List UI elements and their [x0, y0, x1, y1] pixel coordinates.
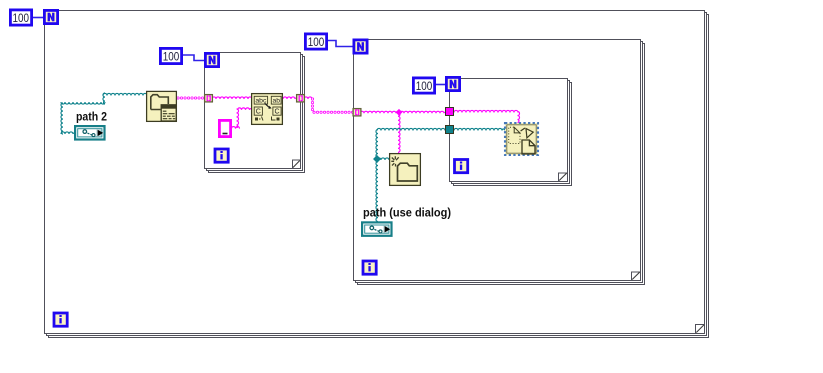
svg-text:ab: ab — [273, 98, 281, 105]
for loop 4 (innermost) — [450, 79, 572, 186]
wire: loop4 path tunnel to Move — [454, 128, 505, 130]
resize corner loop4 — [559, 173, 567, 180]
N terminal loop1 — [44, 10, 57, 23]
svg-text:100: 100 — [416, 79, 433, 93]
wire: loop3 tunnel to loop4 string tunnel — [360, 111, 446, 113]
for loop 1 (outer) — [45, 11, 709, 338]
wire: path2 control to List Folder (teal path wire) — [61, 132, 75, 134]
junction on string wire — [396, 109, 403, 116]
Search and Replace String VI icon — [252, 94, 283, 125]
numeric constant 100 (loop3) — [305, 34, 326, 49]
path 2 control — [75, 126, 104, 139]
N terminal loop2 — [205, 53, 218, 66]
tunnel loop4 string (solid) — [446, 108, 454, 116]
List Folder VI icon — [147, 91, 177, 121]
wire: string constant to Search Replace String — [232, 127, 240, 129]
svg-text:100: 100 — [163, 50, 180, 64]
resize corner loop3 — [632, 272, 640, 279]
i terminal loop4 — [455, 160, 468, 173]
i terminal loop3 — [363, 261, 376, 274]
numeric constant 100 (loop1) — [10, 10, 31, 25]
svg-text:100: 100 — [13, 11, 30, 25]
wire: 100 to N loop1 — [33, 17, 43, 19]
svg-text:C: C — [274, 109, 279, 116]
wire: 100 to N loop2 — [183, 55, 204, 61]
wire: 100 to N loop3 — [328, 41, 353, 47]
resize corner loop2 — [293, 161, 300, 168]
svg-text:path (use dialog): path (use dialog) — [363, 206, 451, 220]
N terminal loop4 — [446, 77, 459, 90]
numeric constant 100 (loop4) — [413, 78, 434, 93]
Move VI icon (selected, dashed border) — [505, 123, 538, 155]
wire: Search Replace String to right tunnel — [283, 97, 297, 99]
N terminal loop3 — [354, 40, 367, 53]
tunnel loop4 path (solid) — [446, 126, 454, 134]
svg-text:path 2: path 2 — [76, 110, 107, 124]
auto-indexing tunnel loop3 left — [353, 109, 361, 116]
junction on path wire — [373, 155, 381, 163]
svg-text:C: C — [256, 109, 261, 116]
auto-indexing tunnel loop2 left — [205, 95, 213, 102]
i terminal loop1 — [54, 313, 67, 326]
wire: List Folder output array (dotted magenta) — [178, 97, 204, 100]
for loop 3 — [354, 40, 645, 285]
auto-indexing tunnel loop2 right — [297, 95, 305, 102]
wire: branch down to Create Folder — [398, 112, 400, 153]
wire: path use dialog up to loop4 (teal) — [376, 130, 378, 222]
wire: loop4 string tunnel to Move — [454, 110, 519, 112]
path (use dialog) control — [362, 222, 391, 235]
Create Folder VI icon — [390, 154, 421, 186]
wire: loop2 tunnel to Search Replace String — [212, 97, 252, 99]
numeric constant 100 (loop2) — [160, 48, 181, 63]
string constant (empty) — [219, 120, 230, 136]
wire: 100 to N loop4 — [436, 84, 445, 86]
svg-text:100: 100 — [308, 35, 325, 49]
i terminal loop2 — [215, 149, 228, 162]
for loop 2 — [205, 53, 305, 173]
resize corner loop1 — [696, 325, 704, 333]
wire: loop2 right tunnel to loop3 tunnel — [304, 97, 314, 99]
